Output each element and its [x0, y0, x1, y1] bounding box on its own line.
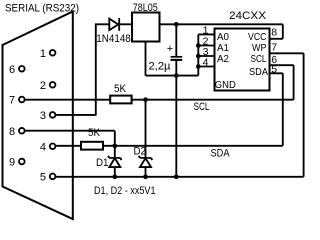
IC pin 7 wire WP — [270, 41, 304, 176]
capacitor C1 2.2u — [167, 43, 182, 60]
svg-text:+: + — [167, 43, 173, 55]
IC pin 2 stub — [198, 36, 214, 48]
IC pin 5 wire SDA — [270, 64, 283, 146]
pin 2 — [40, 80, 56, 92]
wire D2 to ground row — [145, 167, 147, 177]
svg-text:6: 6 — [9, 64, 15, 76]
wire CTS riser down — [114, 131, 116, 146]
zener D1 — [108, 156, 122, 167]
pin 3 — [40, 110, 56, 122]
svg-text:D2: D2 — [134, 145, 147, 157]
wire D1 riser — [114, 146, 116, 158]
svg-text:A2: A2 — [217, 53, 229, 65]
node SCL junction — [143, 97, 148, 102]
svg-text:SERIAL (RS232): SERIAL (RS232) — [5, 3, 79, 15]
wire TxD riser — [95, 23, 97, 115]
svg-text:5K: 5K — [114, 83, 127, 95]
wire pin3 TxD to riser — [55, 114, 95, 116]
node ground D2 — [143, 174, 148, 179]
zener D2 — [139, 156, 153, 167]
svg-text:1N4148: 1N4148 — [96, 33, 131, 45]
svg-text:2: 2 — [40, 80, 46, 92]
regulator ground pin — [145, 42, 147, 76]
node 5V junction at capacitor — [174, 22, 179, 27]
svg-text:78L05: 78L05 — [133, 2, 158, 14]
node rail pin2 — [196, 43, 201, 48]
svg-text:SCL: SCL — [194, 101, 210, 113]
wire diode to regulator — [118, 23, 132, 25]
pin 4 — [40, 141, 56, 153]
svg-text:9: 9 — [9, 157, 15, 169]
wire pin7 RTS / SCL row — [25, 99, 110, 101]
svg-text:1: 1 — [40, 48, 46, 60]
wire SDA row — [103, 145, 283, 147]
wire SCL row right — [132, 99, 294, 101]
pin 7 — [9, 95, 25, 107]
svg-text:WP: WP — [252, 42, 267, 54]
svg-text:D1: D1 — [96, 157, 109, 169]
svg-text:3: 3 — [40, 110, 46, 122]
connector J1 SERIAL (RS232) outline — [3, 12, 73, 220]
IC U1 24CXX — [215, 29, 270, 91]
pin 5 — [40, 172, 56, 184]
svg-text:7: 7 — [9, 95, 15, 107]
IC pin 6 wire SCL — [270, 54, 294, 99]
svg-text:8: 8 — [271, 26, 277, 38]
svg-text:D1, D2 - xx5V1: D1, D2 - xx5V1 — [94, 185, 156, 197]
svg-text:SCL: SCL — [251, 53, 267, 65]
IC pin 8 box VCC — [270, 24, 283, 39]
wire pin4 DTR — [55, 145, 81, 147]
svg-text:SDA: SDA — [249, 66, 268, 78]
resistor R1 5K — [110, 96, 131, 104]
svg-text:A1: A1 — [217, 42, 229, 54]
regulator U2 78L05 — [132, 13, 160, 42]
svg-text:5: 5 — [40, 172, 46, 184]
capacitor C1 top lead — [175, 24, 177, 56]
node ground-capacitor junction — [174, 73, 179, 78]
node ground D1 — [112, 174, 117, 179]
wire pin8 CTS — [25, 130, 115, 132]
capacitor C1 bottom lead — [175, 61, 177, 177]
wire rail to diode — [96, 23, 110, 25]
resistor R2 5K — [81, 142, 103, 150]
svg-text:4: 4 — [203, 57, 209, 69]
wire D2 riser — [145, 100, 147, 158]
svg-text:24CXX: 24CXX — [229, 10, 267, 22]
node rail pin3 — [196, 54, 201, 59]
wire 5V rail — [160, 23, 283, 25]
svg-text:GND: GND — [215, 79, 236, 91]
svg-text:5K: 5K — [88, 127, 101, 139]
pin 9 — [9, 157, 25, 169]
wire address rail — [197, 34, 199, 75]
svg-text:5: 5 — [271, 64, 277, 76]
node ground capacitor — [174, 174, 179, 179]
svg-text:2,2µ: 2,2µ — [149, 61, 172, 73]
pin 6 — [9, 64, 25, 76]
pin 1 — [40, 48, 56, 60]
IC pin 1 stub — [198, 24, 214, 36]
svg-text:7: 7 — [271, 41, 277, 53]
wire ground row — [55, 176, 303, 178]
svg-text:4: 4 — [40, 141, 46, 153]
node rail pin4 — [196, 64, 201, 69]
IC pin 3 stub — [198, 46, 214, 58]
svg-text:8: 8 — [9, 126, 15, 138]
svg-text:SDA: SDA — [211, 148, 231, 160]
node SDA junction D1 — [112, 143, 117, 148]
diode D3 1N4148 — [109, 18, 119, 31]
wire ground header — [146, 75, 199, 77]
wire D1 to ground row — [114, 167, 116, 177]
IC pin 4 stub — [198, 57, 214, 69]
pin 8 — [9, 126, 25, 138]
